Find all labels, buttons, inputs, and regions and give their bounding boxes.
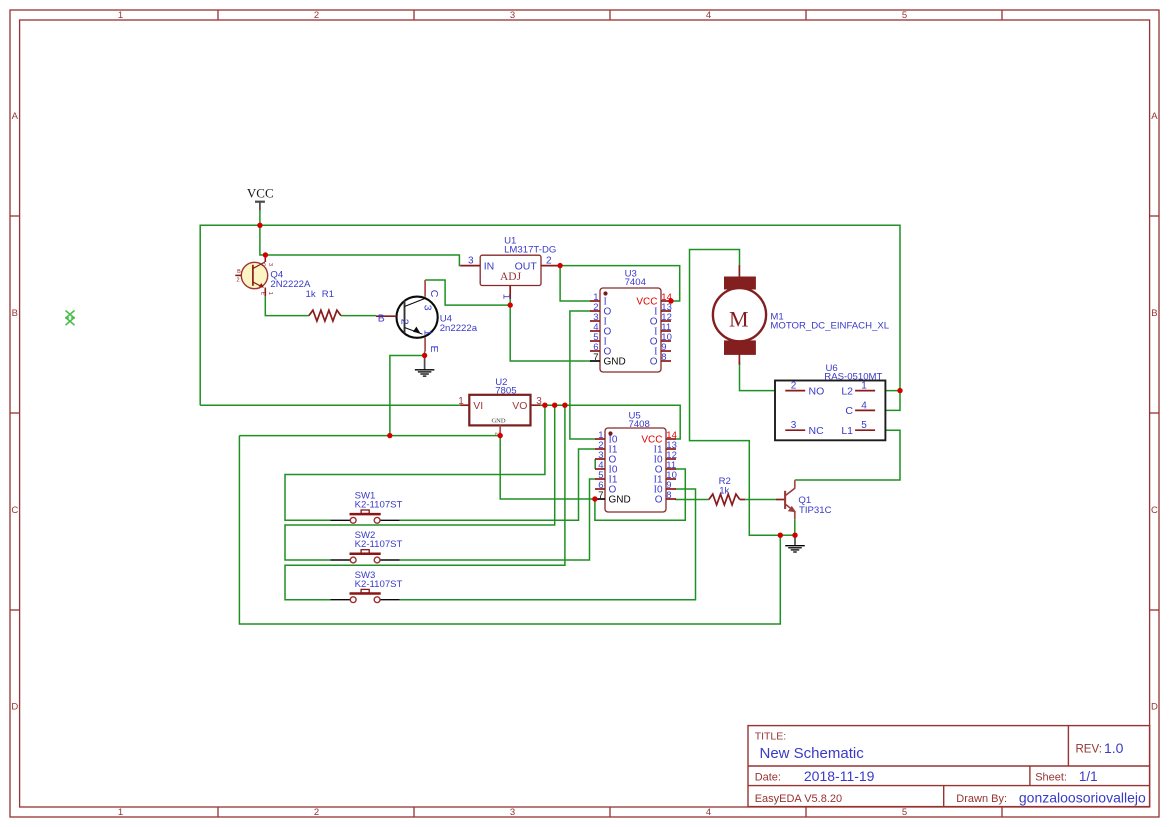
svg-text:GND: GND — [604, 357, 626, 368]
svg-text:7404: 7404 — [625, 277, 647, 288]
wire Q1 emitter to ground node — [794, 519, 796, 535]
svg-text:1.0: 1.0 — [1104, 740, 1124, 756]
svg-text:3: 3 — [421, 305, 433, 311]
wire ADJ to U3 GND pin7 — [510, 305, 590, 361]
wire VCC rail top and right drop to relay — [200, 225, 900, 410]
svg-text:3: 3 — [468, 255, 474, 266]
svg-text:TIP31C: TIP31C — [799, 505, 832, 516]
svg-text:3: 3 — [510, 10, 515, 21]
svg-text:3: 3 — [536, 396, 542, 407]
svg-text:B: B — [1151, 308, 1157, 319]
transistor Q4 2N2222A — [235, 257, 272, 297]
svg-text:ADJ: ADJ — [500, 271, 522, 283]
svg-text:NO: NO — [809, 385, 825, 397]
svg-text:C: C — [1151, 505, 1158, 516]
junction ground bus — [778, 533, 783, 538]
svg-text:Drawn By:: Drawn By: — [956, 793, 1007, 805]
wire U2 VO rail to U5 VCC pin14 — [541, 405, 680, 439]
svg-text:4: 4 — [706, 10, 711, 21]
wire U1 OUT node — [559, 265, 560, 267]
junction U3 pin14 — [668, 298, 673, 303]
svg-text:A: A — [12, 111, 19, 122]
junction Q4 collector — [263, 252, 268, 257]
svg-text:Date:: Date: — [755, 772, 781, 784]
relay U6 RAS-0510MT — [775, 381, 885, 441]
svg-text:2: 2 — [398, 319, 410, 325]
wire U2 GND stub node — [499, 434, 501, 436]
junction VCC rail — [257, 223, 262, 228]
wire VCC rail to U2 VI — [200, 404, 460, 406]
resistor R2 — [709, 494, 740, 505]
junction U5 pin7 — [592, 496, 597, 501]
svg-text:A: A — [1151, 111, 1158, 122]
svg-text:2: 2 — [314, 10, 319, 21]
svg-text:1: 1 — [267, 292, 273, 295]
wire R2 to Q1 base — [745, 499, 776, 501]
svg-text:M: M — [729, 306, 749, 331]
svg-text:5: 5 — [861, 420, 867, 431]
svg-text:2: 2 — [546, 255, 552, 266]
svg-text:O: O — [650, 357, 658, 368]
svg-text:7805: 7805 — [495, 385, 516, 396]
wire motor bottom to relay NO — [740, 362, 786, 391]
junction U1 OUT — [557, 263, 562, 268]
switch SW2 K2-1107ST — [330, 550, 399, 563]
svg-text:B: B — [237, 269, 241, 275]
svg-text:O: O — [655, 495, 663, 506]
svg-text:2: 2 — [791, 381, 797, 392]
svg-text:2: 2 — [236, 277, 239, 283]
wire VO to SW1 left — [285, 405, 545, 520]
wire U4 emitter to GND rail — [390, 356, 425, 436]
wire U2 GND rail left — [239, 435, 500, 437]
svg-text:7: 7 — [593, 352, 598, 363]
svg-text:MOTOR_DC_EINFACH_XL: MOTOR_DC_EINFACH_XL — [770, 321, 889, 332]
wire U1 OUT to U3 pin1 — [560, 266, 590, 301]
svg-text:1/1: 1/1 — [1079, 769, 1098, 784]
transistor U4 2n2222a — [376, 280, 440, 353]
wire Q4 collector to U1 IN — [265, 255, 460, 266]
svg-text:1k: 1k — [306, 289, 316, 300]
regulator U2 7805 — [458, 395, 542, 436]
svg-text:3: 3 — [791, 420, 797, 431]
wire emitter node segment — [780, 534, 795, 536]
svg-text:7408: 7408 — [629, 419, 650, 430]
wire motor top to ground bus — [690, 250, 781, 536]
svg-text:3: 3 — [267, 263, 273, 266]
svg-text:4: 4 — [706, 807, 711, 818]
wire U4 collector to U1 ADJ — [425, 280, 510, 305]
wire ADJ node — [509, 299, 511, 305]
svg-text:gonzaloosoriovallejo: gonzaloosoriovallejo — [1019, 789, 1146, 805]
junction Q1 emitter — [792, 533, 797, 538]
wire VCC stem — [259, 210, 261, 225]
regulator U1 LM317T-DG — [460, 255, 559, 300]
svg-text:L2: L2 — [841, 385, 853, 397]
transistor Q1 TIP31C — [776, 480, 796, 519]
svg-text:R1: R1 — [322, 289, 334, 300]
svg-text:K2-1107ST: K2-1107ST — [355, 499, 403, 510]
svg-text:1: 1 — [458, 396, 464, 407]
svg-text:L1: L1 — [841, 425, 853, 437]
svg-text:C: C — [845, 405, 853, 417]
svg-text:Sheet:: Sheet: — [1035, 772, 1067, 784]
ground under U4 — [415, 356, 435, 377]
svg-text:New Schematic: New Schematic — [760, 745, 865, 762]
svg-text:TITLE:: TITLE: — [755, 730, 787, 742]
wire SW2 right to U5 pin5 — [400, 479, 596, 560]
svg-text:B: B — [12, 308, 18, 319]
svg-text:RAS-0510MT: RAS-0510MT — [824, 372, 882, 383]
wire relay L2 to VCC drop — [875, 390, 900, 392]
junction GND rail left — [387, 433, 392, 438]
junction U2 GND — [498, 433, 503, 438]
junction VO c — [562, 403, 567, 408]
junction U1 ADJ — [508, 302, 513, 307]
svg-text:C: C — [11, 505, 18, 516]
svg-text:8: 8 — [666, 490, 671, 501]
svg-text:1: 1 — [500, 294, 511, 300]
wire Q4 emitter to R1 — [265, 296, 309, 315]
svg-text:GND: GND — [491, 418, 505, 425]
svg-text:2018-11-19: 2018-11-19 — [804, 768, 875, 784]
svg-text:K2-1107ST: K2-1107ST — [355, 539, 403, 550]
junction VO a — [542, 403, 547, 408]
svg-text:1k: 1k — [719, 485, 729, 496]
svg-text:4: 4 — [861, 400, 867, 411]
svg-text:1: 1 — [118, 807, 123, 818]
wire VO to SW2 left — [285, 405, 555, 560]
svg-text:VO: VO — [512, 400, 527, 412]
wire U5 pin3 to pin4 tie — [594, 459, 596, 469]
svg-text:LM317T-DG: LM317T-DG — [504, 245, 556, 256]
svg-text:REV:: REV: — [1076, 743, 1102, 755]
title block — [748, 726, 1150, 807]
svg-text:K2-1107ST: K2-1107ST — [355, 579, 403, 590]
wire ground bus bottom loop — [239, 436, 780, 624]
svg-text:1: 1 — [421, 330, 433, 336]
svg-text:C: C — [260, 263, 266, 267]
junction U4 emitter — [422, 353, 427, 358]
wire R1 to U4 base — [341, 315, 376, 317]
svg-text:2n2222a: 2n2222a — [440, 323, 478, 334]
wire U5 pin7 to pin10 tie — [595, 469, 685, 520]
IC U3 7404 — [590, 288, 672, 372]
svg-text:5: 5 — [902, 807, 907, 818]
svg-text:D: D — [11, 702, 18, 713]
svg-text:D: D — [1151, 702, 1158, 713]
svg-text:5: 5 — [902, 10, 907, 21]
junction relay L2 — [897, 388, 902, 393]
switch SW3 K2-1107ST — [330, 589, 399, 602]
svg-text:2: 2 — [314, 807, 319, 818]
svg-text:B: B — [378, 312, 385, 324]
wire U2 GND to U5 pin7 — [500, 436, 595, 499]
svg-text:7: 7 — [598, 490, 603, 501]
svg-text:1: 1 — [118, 10, 123, 21]
wire U4 emitter node — [424, 352, 426, 356]
svg-text:C: C — [428, 290, 440, 298]
svg-text:E: E — [260, 291, 266, 295]
svg-text:8: 8 — [661, 352, 666, 363]
svg-text:IN: IN — [484, 260, 495, 272]
svg-text:E: E — [428, 345, 440, 352]
svg-text:VI: VI — [473, 400, 483, 412]
switch SW1 K2-1107ST — [330, 510, 399, 523]
wire U5 pin8 to R2 — [675, 499, 709, 501]
junction VO b — [552, 403, 557, 408]
wire relay L1 to Q1 collector — [795, 430, 900, 480]
resistor R1 — [309, 310, 341, 321]
svg-text:3: 3 — [510, 807, 515, 818]
IC U5 7408 — [595, 428, 677, 512]
svg-text:NC: NC — [809, 425, 825, 437]
wire SW3 right to U5 pin9 — [400, 489, 696, 600]
wire SW1 right to U5 pin2 — [400, 449, 596, 520]
wire U1 OUT to U3 VCC pin14 — [560, 266, 680, 301]
wire VO to SW3 left — [285, 405, 565, 600]
svg-text:VCC: VCC — [247, 185, 274, 200]
svg-text:EasyEDA V5.8.20: EasyEDA V5.8.20 — [755, 793, 842, 805]
power flag VCC — [247, 185, 274, 210]
wire U3 pin2 to U5 pin1 — [570, 311, 595, 439]
svg-text:GND: GND — [609, 495, 631, 506]
motor M1 — [713, 265, 766, 364]
origin marker X — [65, 311, 75, 326]
ground under Q1 — [785, 535, 805, 552]
wire Q4 collector drop — [260, 225, 266, 255]
